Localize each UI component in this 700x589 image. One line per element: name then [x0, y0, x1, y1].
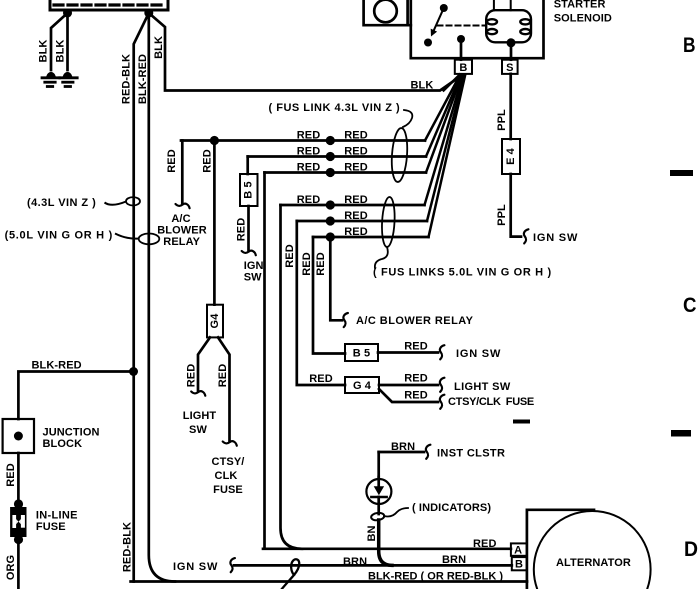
- margin dash 1: [670, 170, 693, 176]
- svg-text:RED: RED: [344, 194, 368, 206]
- wire red5 to G4 box: [297, 221, 345, 385]
- dashed linkage: [438, 25, 485, 27]
- svg-text:BLK: BLK: [54, 40, 66, 63]
- wire red 4: [281, 204, 425, 207]
- wire red 3: [265, 171, 427, 174]
- svg-text:BN: BN: [366, 525, 378, 541]
- svg-text:BLK: BLK: [153, 36, 165, 59]
- A/C blower relay drop (left): [181, 141, 184, 204]
- B post node: [457, 35, 465, 43]
- svg-text:RED: RED: [297, 162, 321, 174]
- wire BLK-RED bottom to alternator: [131, 580, 527, 583]
- svg-text:IGN SW: IGN SW: [173, 561, 218, 573]
- alternator circle: [534, 511, 651, 589]
- terminal A box: [511, 543, 527, 555]
- curl light sw right: [440, 378, 445, 392]
- switch blade with arrow: [434, 8, 444, 31]
- svg-text:BRN: BRN: [343, 556, 367, 568]
- node on RED-BLK: [129, 367, 138, 376]
- wire red 2: [248, 155, 426, 158]
- svg-text:RED: RED: [5, 463, 17, 487]
- G4 drop right to ctsy fuse: [218, 337, 230, 440]
- curl light sw: [191, 391, 205, 396]
- svg-text:C: C: [683, 294, 697, 317]
- svg-text:G 4: G 4: [353, 380, 372, 392]
- svg-text:RED-BLK: RED-BLK: [121, 54, 133, 104]
- wire BLK-RED junction block: [18, 372, 131, 420]
- svg-text:RED: RED: [217, 364, 229, 388]
- wire red 1: [181, 139, 425, 142]
- fuse E4: [502, 139, 520, 174]
- bus to A/C blower relay right: [330, 237, 342, 320]
- svg-text:IGN: IGN: [244, 260, 264, 272]
- wire red6 to B5 box: [313, 237, 345, 354]
- wire BN vertical: [377, 452, 380, 477]
- connector ellipse indicators: [371, 512, 385, 521]
- svg-text:RED: RED: [201, 149, 213, 173]
- junction block box: [3, 419, 34, 453]
- svg-text:RED: RED: [404, 390, 428, 402]
- svg-text:JUNCTION: JUNCTION: [43, 427, 100, 439]
- svg-text:RED: RED: [404, 341, 428, 353]
- svg-text:RELAY: RELAY: [163, 236, 200, 248]
- svg-text:RED-BLK: RED-BLK: [122, 522, 134, 572]
- small dash mid: [513, 420, 530, 424]
- callout squiggle 5.0: [115, 234, 139, 239]
- wire G4 to CTSY/CLK fuse: [379, 389, 438, 402]
- svg-text:IGN SW: IGN SW: [456, 348, 501, 360]
- wire B5 to IGN SW: [378, 351, 438, 354]
- wire BLK to ground 1: [51, 13, 68, 70]
- svg-text:( INDICATORS): ( INDICATORS): [412, 502, 491, 514]
- svg-text:RED: RED: [235, 218, 247, 242]
- solenoid coil: [486, 0, 531, 42]
- wire BLK from bulkhead to solenoid B: [149, 13, 462, 91]
- switch contact lower: [424, 39, 432, 47]
- svg-text:RED: RED: [344, 226, 368, 238]
- terminal B box alternator: [512, 557, 527, 570]
- svg-text:RED: RED: [309, 373, 333, 385]
- svg-text:A: A: [514, 545, 522, 557]
- ground 2: [60, 73, 77, 87]
- svg-text:(4.3L VIN Z ): (4.3L VIN Z ): [27, 197, 96, 209]
- svg-text:RED: RED: [473, 538, 497, 550]
- curl ctsy fuse: [223, 441, 237, 446]
- curl ign sw S-branch: [524, 229, 529, 243]
- squiggle indicators: [384, 508, 408, 517]
- wire B5 to ign sw: [247, 206, 250, 250]
- connector B5 (rotated): [240, 174, 258, 206]
- wire B post: [460, 39, 463, 60]
- svg-text:PPL: PPL: [496, 204, 508, 226]
- curl ac blower relay right: [343, 313, 348, 327]
- G4 drop left to light sw: [198, 337, 210, 390]
- in-line fuse: [10, 499, 26, 544]
- svg-text:LIGHT SW: LIGHT SW: [454, 381, 511, 393]
- svg-text:RED: RED: [344, 162, 368, 174]
- svg-text:B: B: [683, 34, 696, 57]
- svg-text:BLK-RED: BLK-RED: [32, 360, 82, 372]
- wire PPL S to E4: [509, 74, 512, 139]
- svg-text:G4: G4: [209, 313, 221, 329]
- svg-text:( FUS LINK 4.3L VIN Z ): ( FUS LINK 4.3L VIN Z ): [269, 102, 401, 114]
- svg-text:RED: RED: [344, 130, 368, 142]
- svg-text:RED: RED: [344, 210, 368, 222]
- curl inst clstr: [426, 445, 431, 459]
- svg-text:BLK: BLK: [37, 40, 49, 63]
- curl ac relay left: [176, 204, 190, 209]
- svg-text:RED: RED: [297, 146, 321, 158]
- svg-text:RED: RED: [297, 194, 321, 206]
- svg-text:E 4: E 4: [505, 147, 517, 165]
- bulkhead connector box (top left, cut off): [50, 0, 168, 10]
- svg-text:BLK-RED: BLK-RED: [137, 54, 149, 104]
- svg-text:B: B: [515, 559, 523, 571]
- svg-text:RED: RED: [166, 149, 178, 173]
- connector G4: [345, 377, 379, 393]
- fan wire to red 1: [425, 75, 460, 141]
- svg-text:RED: RED: [301, 252, 313, 276]
- svg-text:CLK: CLK: [215, 470, 238, 482]
- wire BN to BRN elbow: [379, 520, 392, 565]
- callout ellipse 5.0: [139, 234, 160, 245]
- starter solenoid small box with circle: [364, 0, 411, 25]
- fan wire to red 5: [427, 75, 464, 222]
- svg-text:BRN: BRN: [391, 441, 415, 453]
- wire red 5: [297, 220, 427, 223]
- svg-text:ORG: ORG: [5, 555, 17, 580]
- wire BLK to ground 2: [66, 13, 69, 70]
- squiggle to oval1: [403, 110, 412, 127]
- wire red4 down to bottom curve: [281, 205, 303, 549]
- svg-text:RED: RED: [185, 364, 197, 388]
- svg-text:RED: RED: [404, 373, 428, 385]
- svg-text:BLOWER: BLOWER: [157, 225, 206, 237]
- curl ctsy right: [440, 395, 445, 409]
- svg-text:BRN: BRN: [442, 554, 466, 566]
- svg-text:LIGHT: LIGHT: [183, 410, 217, 422]
- ground 1: [42, 73, 59, 87]
- wire BLK-RED vertical with bottom curve: [149, 13, 175, 582]
- wire RED block to fuse: [17, 453, 20, 505]
- fan wire to red 2: [426, 75, 461, 157]
- connector G4 (rotated): [207, 305, 223, 338]
- fus link oval 4.3L: [390, 128, 409, 183]
- wire ORG to bottom: [17, 539, 20, 589]
- callout squiggle 4.3: [105, 202, 127, 205]
- alternator enclosure: [527, 510, 594, 589]
- pigtail loop on BRN wire: [282, 559, 299, 589]
- svg-text:SOLENOID: SOLENOID: [554, 13, 612, 25]
- svg-text:ALTERNATOR: ALTERNATOR: [556, 557, 631, 569]
- svg-text:BLOCK: BLOCK: [43, 438, 83, 450]
- fan wire to red 6: [429, 75, 466, 238]
- wire to G4 vertical: [213, 141, 216, 305]
- wire RED to alternator A: [263, 547, 511, 550]
- svg-text:(5.0L VIN G OR H ): (5.0L VIN G OR H ): [5, 230, 113, 242]
- svg-text:FUSE: FUSE: [213, 484, 243, 496]
- fan wire to BLK: [444, 75, 460, 91]
- diode triangle: [374, 486, 384, 495]
- wire red3 down to bottom: [263, 173, 266, 548]
- svg-text:A/C: A/C: [171, 213, 190, 225]
- svg-text:S: S: [506, 62, 513, 74]
- wire G4 to LIGHT SW: [379, 384, 438, 387]
- svg-text:IN-LINE: IN-LINE: [36, 510, 78, 522]
- svg-text:STARTER: STARTER: [554, 0, 606, 11]
- svg-text:D: D: [684, 538, 698, 561]
- svg-text:BLK: BLK: [411, 80, 434, 92]
- svg-text:BLK-RED ( OR RED-BLK ): BLK-RED ( OR RED-BLK ): [368, 571, 503, 583]
- margin dash 2: [671, 430, 691, 437]
- indicator lamp circle: [366, 479, 391, 504]
- svg-text:B 5: B 5: [353, 348, 370, 360]
- node right junction: [144, 9, 153, 18]
- wire BRN ign sw to alternator B: [234, 564, 512, 567]
- svg-text:A/C BLOWER RELAY: A/C BLOWER RELAY: [356, 315, 474, 327]
- svg-text:PPL: PPL: [496, 109, 508, 131]
- wire BRN inst clstr branch: [379, 451, 424, 454]
- node left junction: [63, 9, 72, 18]
- wire RED-BLK vertical (left long): [134, 13, 149, 582]
- curl ign sw bottom: [230, 558, 235, 572]
- svg-text:B: B: [459, 62, 467, 74]
- curl b5 ign sw: [440, 345, 445, 359]
- node red1/G4: [210, 136, 219, 145]
- svg-text:FUSE: FUSE: [36, 521, 66, 533]
- coil bottom node: [507, 38, 516, 47]
- terminal S box: [502, 60, 518, 74]
- svg-text:RED: RED: [315, 252, 327, 276]
- svg-text:B 5: B 5: [243, 181, 255, 198]
- svg-text:INST CLSTR: INST CLSTR: [437, 448, 505, 460]
- starter solenoid main box: [411, 0, 544, 58]
- wire below lamp: [377, 477, 380, 514]
- svg-text:CTSY/: CTSY/: [212, 456, 245, 468]
- connector B5: [345, 344, 378, 361]
- wire PPL E4 to IGN SW: [511, 174, 521, 237]
- callout ellipse 4.3: [126, 197, 140, 205]
- svg-text:RED: RED: [344, 146, 368, 158]
- wire coil to S: [510, 43, 513, 60]
- fus link oval 5.0L: [381, 197, 396, 248]
- svg-text:RED: RED: [297, 130, 321, 142]
- squiggle from oval2: [375, 247, 388, 268]
- svg-text:SW: SW: [244, 272, 262, 284]
- svg-text:RED: RED: [284, 244, 296, 268]
- bulkhead dashed line: [54, 3, 166, 6]
- svg-text:IGN SW: IGN SW: [533, 232, 578, 244]
- svg-text:( FUS LINKS 5.0L VIN G OR H ): ( FUS LINKS 5.0L VIN G OR H ): [373, 267, 552, 279]
- fan wire to red 4: [425, 75, 464, 206]
- switch contact upper: [440, 4, 448, 12]
- curl ign sw mid: [242, 251, 256, 256]
- terminal B box: [455, 60, 472, 74]
- svg-text:SW: SW: [189, 424, 207, 436]
- wire red2 to B5 rotated: [246, 157, 249, 175]
- splice dots column: [326, 136, 335, 145]
- wire red 6: [313, 236, 429, 239]
- svg-text:CTSY/CLK FUSE: CTSY/CLK FUSE: [448, 396, 534, 408]
- fan wire to red 3: [426, 75, 462, 173]
